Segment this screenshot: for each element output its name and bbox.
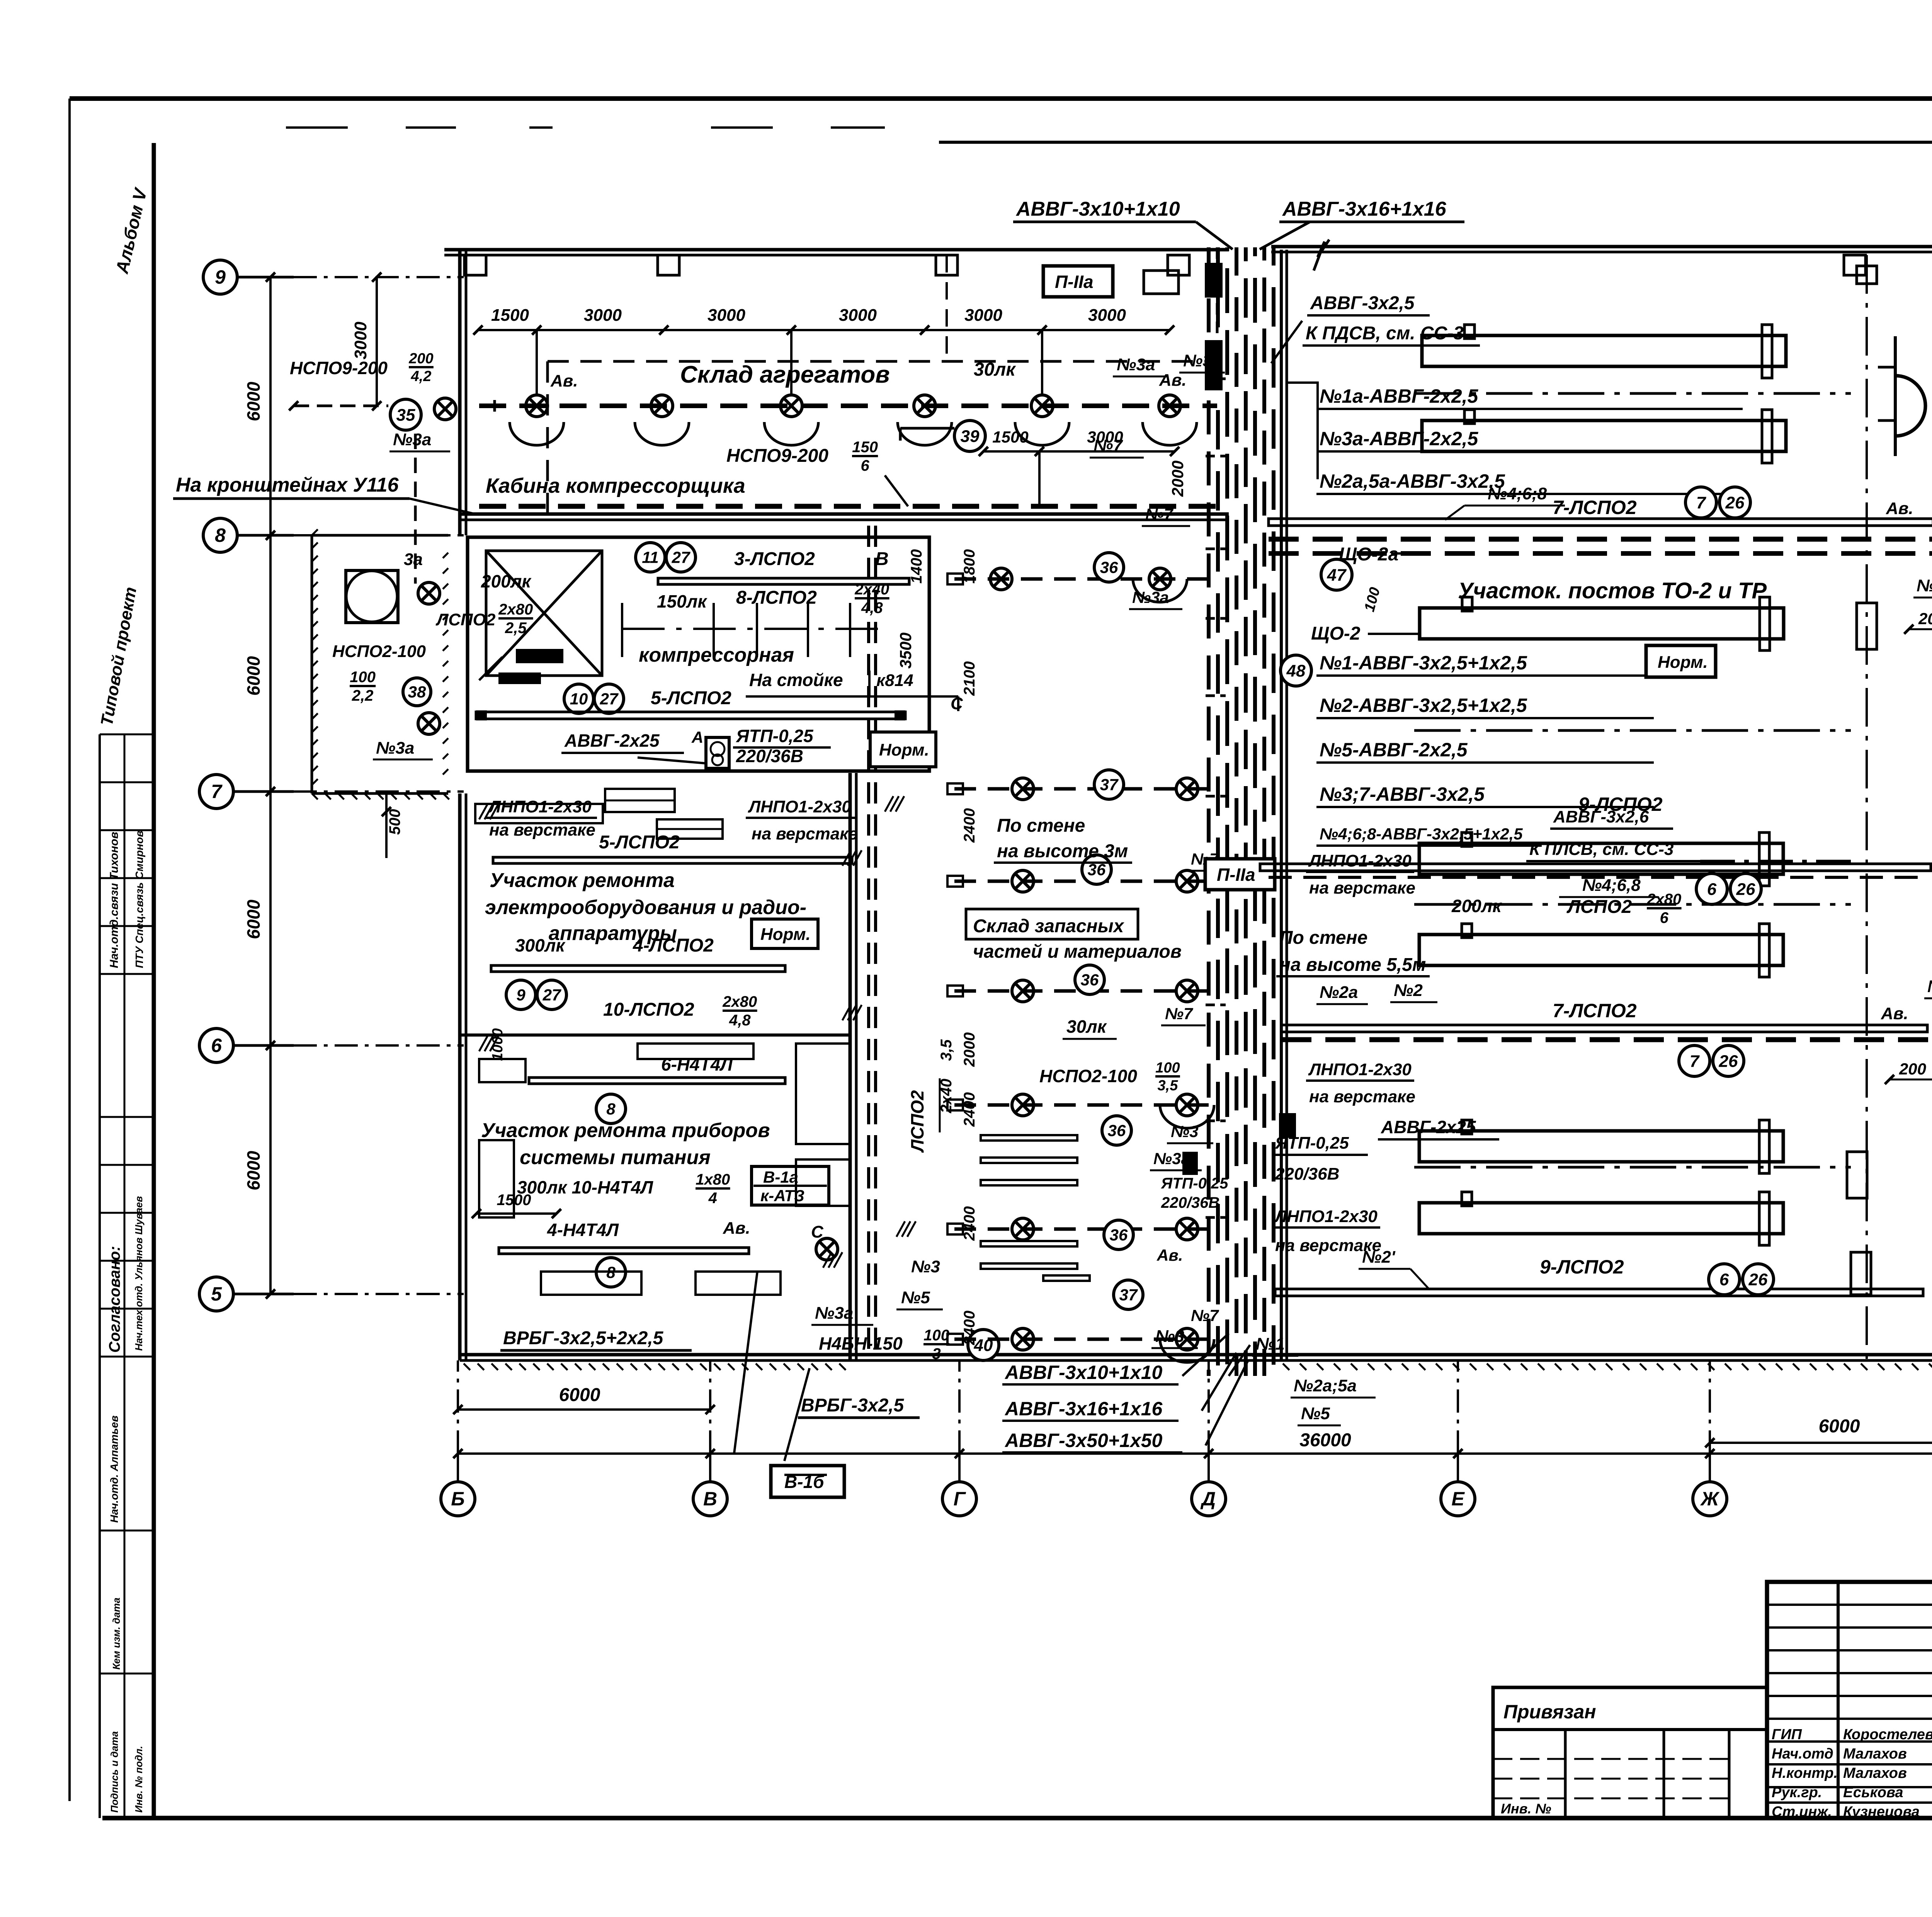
svg-text:7: 7 xyxy=(1690,1052,1700,1071)
svg-text:АВВГ-3х10+1х10: АВВГ-3х10+1х10 xyxy=(1015,198,1180,220)
svg-text:Подпись и дата: Подпись и дата xyxy=(109,1731,120,1813)
svg-text:6000: 6000 xyxy=(243,1151,264,1190)
svg-text:2,2: 2,2 xyxy=(352,687,374,704)
svg-text:№5: №5 xyxy=(901,1288,930,1307)
svg-text:к-АТЗ: к-АТЗ xyxy=(760,1187,804,1205)
svg-text:2000: 2000 xyxy=(1168,461,1187,497)
svg-text:Ав.: Ав. xyxy=(550,371,578,390)
svg-text:2400: 2400 xyxy=(961,1092,978,1127)
svg-text:Нач.отд: Нач.отд xyxy=(1772,1746,1833,1762)
svg-text:АВВГ-3х16+1х16: АВВГ-3х16+1х16 xyxy=(1004,1398,1163,1420)
svg-text:электрооборудования и радио-: электрооборудования и радио- xyxy=(485,896,806,919)
svg-text:100: 100 xyxy=(923,1327,949,1344)
svg-text:3: 3 xyxy=(932,1345,940,1362)
svg-text:4,8: 4,8 xyxy=(729,1012,751,1029)
svg-text:Ав.: Ав. xyxy=(1886,499,1913,518)
svg-text:Кузнецова: Кузнецова xyxy=(1843,1804,1920,1820)
svg-text:Типовой проект: Типовой проект xyxy=(97,586,140,727)
svg-text:3000: 3000 xyxy=(1087,428,1123,446)
svg-text:48: 48 xyxy=(1286,661,1306,680)
svg-text:Участок. постов ТО-2 и ТР: Участок. постов ТО-2 и ТР xyxy=(1458,578,1767,603)
svg-text:6: 6 xyxy=(1707,880,1717,899)
svg-text:ЛНПО1-2х30: ЛНПО1-2х30 xyxy=(1308,851,1412,870)
svg-text:3000: 3000 xyxy=(839,306,877,325)
svg-text:Нач.отд. Алпатьев: Нач.отд. Алпатьев xyxy=(108,1415,120,1523)
svg-text:Альбом V: Альбом V xyxy=(112,186,151,276)
svg-text:5: 5 xyxy=(211,1283,222,1305)
svg-text:Ав.: Ав. xyxy=(1881,1004,1908,1023)
svg-text:на верстаке: на верстаке xyxy=(1309,878,1415,897)
svg-text:№4;6;8-АВВГ-3х2,5+1х2,5: №4;6;8-АВВГ-3х2,5+1х2,5 xyxy=(1320,825,1523,843)
svg-text:7: 7 xyxy=(211,781,223,802)
svg-text:№1а: №1а xyxy=(1917,576,1932,595)
svg-text:ЛСПО2: ЛСПО2 xyxy=(435,610,496,629)
svg-text:3000: 3000 xyxy=(351,322,370,359)
svg-text:Е: Е xyxy=(1451,1488,1465,1510)
svg-text:Кабина компрессорщика: Кабина компрессорщика xyxy=(486,474,745,497)
svg-text:300лк 10-Н4Т4Л: 300лк 10-Н4Т4Л xyxy=(517,1177,653,1197)
svg-text:2,5: 2,5 xyxy=(505,620,527,637)
svg-text:2400: 2400 xyxy=(961,1206,978,1241)
svg-text:6000: 6000 xyxy=(243,899,264,939)
svg-text:Участок ремонта приборов: Участок ремонта приборов xyxy=(481,1119,770,1142)
svg-text:10-ЛСПО2: 10-ЛСПО2 xyxy=(603,999,694,1020)
svg-text:АВВГ-3х2,6: АВВГ-3х2,6 xyxy=(1553,807,1649,826)
svg-text:1500: 1500 xyxy=(491,306,529,325)
svg-text:№5а: №5а xyxy=(1927,977,1932,996)
svg-text:АВВГ-2х25: АВВГ-2х25 xyxy=(1381,1117,1476,1137)
svg-text:№7: №7 xyxy=(1191,1306,1219,1325)
svg-text:36000: 36000 xyxy=(1299,1430,1351,1451)
svg-text:Еськова: Еськова xyxy=(1843,1784,1903,1801)
svg-text:ЩО-2: ЩО-2 xyxy=(1311,623,1361,644)
svg-text:№5: №5 xyxy=(1301,1404,1330,1423)
svg-text:37: 37 xyxy=(1100,776,1119,794)
svg-text:НСПО9-200: НСПО9-200 xyxy=(290,358,388,378)
svg-text:26: 26 xyxy=(1719,1052,1738,1071)
svg-text:6: 6 xyxy=(1719,1270,1729,1289)
svg-text:2х80: 2х80 xyxy=(498,601,533,618)
svg-text:ЩО-2а: ЩО-2а xyxy=(1339,544,1398,565)
svg-text:5-ЛСПО2: 5-ЛСПО2 xyxy=(599,832,680,853)
svg-text:Коростелев: Коростелев xyxy=(1843,1726,1932,1743)
svg-text:30лк: 30лк xyxy=(974,359,1016,380)
svg-text:на высоте 5,5м: на высоте 5,5м xyxy=(1279,955,1426,975)
svg-text:Ав.: Ав. xyxy=(1156,1246,1183,1264)
svg-text:№7: №7 xyxy=(1165,1004,1193,1023)
svg-text:К ПЛСВ, см. СС-3: К ПЛСВ, см. СС-3 xyxy=(1529,840,1673,859)
svg-text:1500: 1500 xyxy=(992,428,1028,446)
svg-text:Д: Д xyxy=(1200,1488,1216,1510)
svg-text:6000: 6000 xyxy=(243,381,264,421)
svg-text:на верстаке: на верстаке xyxy=(752,824,858,843)
svg-text:36: 36 xyxy=(1081,971,1099,989)
svg-text:АВВГ-2х25: АВВГ-2х25 xyxy=(564,730,660,751)
svg-text:300лк: 300лк xyxy=(515,935,566,955)
svg-text:Склад запасных: Склад запасных xyxy=(973,916,1125,936)
svg-text:4,8: 4,8 xyxy=(861,599,883,616)
svg-text:1х80: 1х80 xyxy=(696,1171,730,1188)
svg-text:2х80: 2х80 xyxy=(1646,891,1681,908)
svg-text:№3а: №3а xyxy=(1132,588,1169,606)
svg-text:6: 6 xyxy=(211,1035,222,1056)
svg-text:4-ЛСПО2: 4-ЛСПО2 xyxy=(633,935,714,956)
svg-text:ЛНПО1-2х30: ЛНПО1-2х30 xyxy=(488,797,592,816)
svg-text:8: 8 xyxy=(215,524,226,546)
svg-text:100: 100 xyxy=(1361,586,1383,613)
svg-text:системы питания: системы питания xyxy=(520,1146,711,1169)
svg-text:7: 7 xyxy=(1696,493,1707,512)
svg-text:3000: 3000 xyxy=(707,306,745,325)
svg-text:3-ЛСПО2: 3-ЛСПО2 xyxy=(734,549,815,569)
svg-text:Норм.: Норм. xyxy=(760,925,811,944)
svg-text:ПТУ Спец.связь Смирнов: ПТУ Спец.связь Смирнов xyxy=(133,831,145,968)
svg-text:3000: 3000 xyxy=(1088,306,1126,325)
svg-text:100: 100 xyxy=(1155,1060,1180,1076)
svg-text:АВВГ-3х2,5: АВВГ-3х2,5 xyxy=(1310,293,1415,313)
svg-text:47: 47 xyxy=(1327,565,1347,584)
svg-text:Малахов: Малахов xyxy=(1843,1765,1907,1781)
svg-text:2х40: 2х40 xyxy=(854,581,889,598)
svg-text:По стене: По стене xyxy=(1279,928,1367,948)
svg-text:П-IIа: П-IIа xyxy=(1055,272,1094,292)
svg-text:на высоте 3м: на высоте 3м xyxy=(997,841,1128,861)
svg-text:НСПО9-200: НСПО9-200 xyxy=(726,446,828,466)
svg-text:100: 100 xyxy=(350,669,376,686)
svg-text:Нач.тех.отд. Ульянов Шуваев: Нач.тех.отд. Ульянов Шуваев xyxy=(133,1196,145,1351)
svg-text:200: 200 xyxy=(408,351,433,367)
svg-text:200: 200 xyxy=(1918,609,1932,628)
svg-text:НСПО2-100: НСПО2-100 xyxy=(1039,1066,1137,1086)
svg-text:Г: Г xyxy=(954,1488,966,1510)
svg-text:150: 150 xyxy=(852,439,878,456)
svg-text:Н.контр.: Н.контр. xyxy=(1772,1765,1838,1781)
svg-text:6000: 6000 xyxy=(243,656,264,696)
svg-text:№7: №7 xyxy=(1145,505,1173,523)
svg-text:№2': №2' xyxy=(1362,1248,1396,1267)
svg-text:№3а: №3а xyxy=(376,739,414,758)
svg-text:Нач.отд.связи Тихонов: Нач.отд.связи Тихонов xyxy=(108,832,121,968)
svg-text:№5-АВВГ-2х2,5: №5-АВВГ-2х2,5 xyxy=(1320,739,1468,761)
svg-text:150лк: 150лк xyxy=(657,591,707,611)
svg-text:В-1а: В-1а xyxy=(763,1168,798,1186)
svg-text:1000: 1000 xyxy=(490,1028,506,1061)
svg-text:9: 9 xyxy=(516,986,526,1004)
svg-text:ЛНПО1-2х30: ЛНПО1-2х30 xyxy=(1274,1207,1378,1226)
svg-text:Малахов: Малахов xyxy=(1843,1746,1907,1762)
svg-text:Ав.: Ав. xyxy=(723,1219,750,1238)
svg-text:А: А xyxy=(691,728,703,746)
svg-text:3,5: 3,5 xyxy=(938,1039,955,1061)
svg-text:26: 26 xyxy=(1748,1270,1768,1289)
svg-text:3,5: 3,5 xyxy=(1158,1078,1179,1094)
svg-text:На стойке: На стойке xyxy=(749,670,843,690)
svg-text:№1-АВВГ-3х2,5+1х2,5: №1-АВВГ-3х2,5+1х2,5 xyxy=(1320,652,1527,674)
svg-text:№4;6;8: №4;6;8 xyxy=(1488,484,1547,503)
svg-text:6000: 6000 xyxy=(1819,1416,1860,1437)
svg-text:5-ЛСПО2: 5-ЛСПО2 xyxy=(651,688,731,708)
svg-text:№2а;5а: №2а;5а xyxy=(1294,1376,1357,1395)
svg-text:№2: №2 xyxy=(1394,981,1423,1000)
svg-text:4-Н4Т4Л: 4-Н4Т4Л xyxy=(547,1220,619,1240)
svg-text:27: 27 xyxy=(543,986,561,1004)
svg-text:В: В xyxy=(703,1488,717,1510)
svg-text:4,2: 4,2 xyxy=(411,368,432,385)
svg-text:В: В xyxy=(875,549,889,569)
svg-text:Норм.: Норм. xyxy=(879,741,929,759)
svg-text:№2а,5а-АВВГ-3х2,5: №2а,5а-АВВГ-3х2,5 xyxy=(1320,470,1505,492)
svg-text:Привязан: Привязан xyxy=(1503,1701,1596,1723)
svg-text:№3;7-АВВГ-3х2,5: №3;7-АВВГ-3х2,5 xyxy=(1320,783,1485,805)
svg-text:№3а: №3а xyxy=(393,430,431,449)
svg-text:35: 35 xyxy=(396,405,415,424)
svg-text:частей и материалов: частей и материалов xyxy=(973,941,1182,962)
svg-text:к814: к814 xyxy=(876,671,913,690)
svg-text:ЛСПО2: ЛСПО2 xyxy=(907,1090,927,1153)
svg-text:8: 8 xyxy=(606,1100,616,1118)
svg-text:По стене: По стене xyxy=(997,815,1085,836)
svg-text:Рук.гр.: Рук.гр. xyxy=(1772,1784,1822,1801)
svg-text:На кронштейнах У116: На кронштейнах У116 xyxy=(176,474,399,496)
svg-text:ЯТП-0,25: ЯТП-0,25 xyxy=(736,726,814,746)
svg-text:2000: 2000 xyxy=(961,1032,978,1067)
svg-text:39: 39 xyxy=(961,427,980,446)
svg-text:220/36В: 220/36В xyxy=(1275,1165,1339,1183)
svg-text:27: 27 xyxy=(672,548,690,567)
svg-text:8-ЛСПО2: 8-ЛСПО2 xyxy=(736,587,817,608)
svg-text:3а: 3а xyxy=(404,550,423,569)
svg-text:6: 6 xyxy=(1660,909,1669,926)
svg-text:Инв. № подл.: Инв. № подл. xyxy=(133,1746,145,1813)
svg-text:11: 11 xyxy=(642,548,659,567)
svg-text:АВВГ-3х16+1х16: АВВГ-3х16+1х16 xyxy=(1282,198,1447,220)
svg-text:ЯТП-0,25: ЯТП-0,25 xyxy=(1161,1175,1228,1192)
svg-text:30лк: 30лк xyxy=(1066,1016,1107,1037)
svg-text:П-IIа: П-IIа xyxy=(1217,865,1255,885)
svg-text:Н4БН-150: Н4БН-150 xyxy=(819,1333,903,1353)
svg-text:Согласовано:: Согласовано: xyxy=(106,1246,123,1353)
svg-text:7-ЛСПО2: 7-ЛСПО2 xyxy=(1553,497,1637,518)
svg-text:АВВГ-3х10+1х10: АВВГ-3х10+1х10 xyxy=(1004,1362,1163,1383)
svg-text:Ст.инж.: Ст.инж. xyxy=(1772,1804,1832,1820)
svg-text:№2-АВВГ-3х2,5+1х2,5: №2-АВВГ-3х2,5+1х2,5 xyxy=(1320,695,1527,716)
svg-text:К ПДСВ, см. СС-3: К ПДСВ, см. СС-3 xyxy=(1306,323,1464,344)
svg-text:ВРБГ-3х2,5: ВРБГ-3х2,5 xyxy=(801,1395,905,1416)
svg-text:2400: 2400 xyxy=(961,808,978,843)
svg-text:9: 9 xyxy=(215,266,226,288)
svg-text:на верстаке: на верстаке xyxy=(1309,1087,1415,1106)
svg-text:36: 36 xyxy=(1108,1122,1126,1140)
svg-text:С: С xyxy=(951,694,963,713)
svg-text:компрессорная: компрессорная xyxy=(639,644,794,666)
svg-text:2х80: 2х80 xyxy=(722,993,757,1010)
svg-text:ВРБГ-3х2,5+2х2,5: ВРБГ-3х2,5+2х2,5 xyxy=(503,1328,664,1348)
svg-text:АВВГ-3х50+1х50: АВВГ-3х50+1х50 xyxy=(1004,1430,1163,1451)
svg-text:Инв. №: Инв. № xyxy=(1501,1801,1551,1817)
svg-text:Кем изм. дата: Кем изм. дата xyxy=(111,1597,122,1670)
svg-text:ЛСПО2: ЛСПО2 xyxy=(1566,897,1632,917)
svg-text:3000: 3000 xyxy=(964,306,1002,325)
svg-text:220/36В: 220/36В xyxy=(1161,1194,1219,1211)
svg-text:200: 200 xyxy=(1899,1060,1926,1078)
svg-text:№3: №3 xyxy=(1171,1122,1199,1141)
svg-text:Склад агрегатов: Склад агрегатов xyxy=(680,361,890,388)
svg-text:1800: 1800 xyxy=(961,549,978,584)
svg-text:3000: 3000 xyxy=(584,306,622,325)
svg-text:№3а-АВВГ-2х2,5: №3а-АВВГ-2х2,5 xyxy=(1320,428,1479,449)
svg-text:500: 500 xyxy=(386,809,403,835)
svg-text:Ж: Ж xyxy=(1700,1488,1720,1510)
svg-text:НСПО2-100: НСПО2-100 xyxy=(332,642,426,661)
svg-text:220/36В: 220/36В xyxy=(736,746,803,766)
svg-text:№1: №1 xyxy=(1256,1335,1285,1353)
svg-text:№3а: №3а xyxy=(815,1304,853,1323)
svg-text:27: 27 xyxy=(600,690,619,708)
svg-text:2400: 2400 xyxy=(961,1311,978,1345)
svg-text:3500: 3500 xyxy=(896,633,915,669)
svg-text:№2а: №2а xyxy=(1320,983,1358,1002)
svg-text:1400: 1400 xyxy=(908,549,925,584)
svg-text:36: 36 xyxy=(1110,1226,1128,1244)
svg-text:ГИП: ГИП xyxy=(1772,1726,1802,1743)
svg-text:37: 37 xyxy=(1119,1286,1138,1304)
svg-text:6000: 6000 xyxy=(559,1385,600,1405)
svg-text:4: 4 xyxy=(708,1190,717,1207)
svg-text:№4;6,8: №4;6,8 xyxy=(1582,876,1641,895)
svg-text:№1а-АВВГ-2х2,5: №1а-АВВГ-2х2,5 xyxy=(1320,385,1479,407)
svg-text:36: 36 xyxy=(1100,558,1118,577)
svg-text:26: 26 xyxy=(1736,880,1755,899)
svg-text:№3а: №3а xyxy=(1117,355,1155,374)
svg-text:7-ЛСПО2: 7-ЛСПО2 xyxy=(1553,1000,1637,1021)
svg-text:2100: 2100 xyxy=(961,661,978,696)
svg-text:10: 10 xyxy=(570,690,588,708)
svg-text:6: 6 xyxy=(861,457,869,474)
svg-text:26: 26 xyxy=(1725,493,1745,512)
svg-text:200лк: 200лк xyxy=(1451,896,1502,916)
svg-text:ЛНПО1-2х30: ЛНПО1-2х30 xyxy=(1308,1060,1412,1079)
svg-text:6-Н4Т4Л: 6-Н4Т4Л xyxy=(661,1054,733,1074)
svg-text:Участок ремонта: Участок ремонта xyxy=(490,869,675,892)
svg-text:Норм.: Норм. xyxy=(1658,653,1708,672)
svg-text:9-ЛСПО2: 9-ЛСПО2 xyxy=(1540,1256,1624,1278)
svg-text:ЛНПО1-2х30: ЛНПО1-2х30 xyxy=(748,797,851,816)
svg-text:Б: Б xyxy=(451,1488,464,1510)
svg-text:200лк: 200лк xyxy=(481,571,532,591)
svg-text:38: 38 xyxy=(408,683,426,701)
svg-text:№3: №3 xyxy=(911,1257,940,1276)
